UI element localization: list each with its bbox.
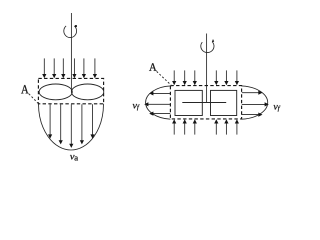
right fig top inflow arrow 1 bbox=[172, 70, 176, 85]
left fig top inflow arrow 3 bbox=[61, 58, 65, 78]
left fig top inflow arrow 5 bbox=[82, 58, 86, 78]
left fig top inflow arrow 6 bbox=[93, 58, 97, 78]
label A pointer line (right figure) bbox=[157, 71, 173, 86]
right fig horizontal center line bbox=[182, 102, 226, 104]
left fig right ellipse bbox=[71, 84, 103, 100]
right fig left outflow arrow top bbox=[149, 91, 170, 95]
left fig downward flow arrow 4 bbox=[80, 104, 84, 144]
right fig top inflow arrow 4 bbox=[214, 70, 218, 85]
left figure rotation direction arc bbox=[64, 26, 77, 38]
label A (left figure) bbox=[21, 85, 29, 93]
right fig left bulge arc bbox=[146, 86, 171, 119]
label v_a bbox=[70, 155, 78, 161]
left rotation arc arrowhead bbox=[75, 25, 77, 27]
left fig dashed region-A rectangle bbox=[38, 78, 103, 103]
right fig top inflow arrow 5 bbox=[224, 70, 228, 85]
label v_f left bbox=[133, 104, 140, 111]
right fig bottom inflow arrow 6 bbox=[235, 119, 239, 134]
right rotation arc arrowhead bbox=[212, 39, 214, 42]
right fig left outflow arrow middle bbox=[144, 102, 170, 106]
left fig top inflow arrow 4 bbox=[72, 58, 76, 78]
right fig top inflow arrow 6 bbox=[235, 70, 239, 85]
right fig bottom inflow arrow 2 bbox=[183, 119, 187, 134]
right figure rotation direction arc bbox=[201, 42, 214, 52]
right fig bottom inflow arrow 4 bbox=[214, 119, 218, 134]
right fig right outflow arrow middle bbox=[242, 102, 269, 106]
label A (right figure) bbox=[149, 63, 157, 71]
right fig top inflow arrow 2 bbox=[183, 70, 187, 85]
right fig right bulge arc bbox=[242, 86, 268, 119]
left fig downward flow arrow 2 bbox=[59, 104, 63, 144]
label A pointer line (left figure) bbox=[29, 94, 39, 104]
left figure rotation axis bbox=[70, 13, 72, 92]
label v_f right bbox=[274, 105, 281, 112]
right fig right outflow arrow bottom bbox=[242, 113, 263, 117]
left fig downward flow arrow 1 bbox=[48, 104, 52, 138]
right fig top inflow arrow 3 bbox=[193, 70, 197, 85]
right fig bottom inflow arrow 3 bbox=[193, 119, 197, 134]
right fig dashed region-A rectangle bbox=[170, 86, 241, 119]
right fig left inner rectangle bbox=[175, 90, 202, 115]
right figure rotation axis bbox=[206, 34, 208, 104]
left fig top inflow arrow 2 bbox=[52, 58, 56, 78]
left fig left ellipse bbox=[39, 84, 72, 100]
right fig left outflow arrow bottom bbox=[149, 112, 170, 116]
right fig right inner rectangle bbox=[211, 90, 237, 115]
left fig top inflow arrow 1 bbox=[42, 58, 46, 78]
right fig right outflow arrow top bbox=[242, 91, 263, 95]
left fig downward flow arrow 3 bbox=[69, 104, 73, 148]
left fig downward flow arrow 5 bbox=[90, 104, 94, 138]
left fig U-shaped body outline bbox=[39, 104, 104, 150]
right fig bottom inflow arrow 5 bbox=[224, 119, 228, 134]
right fig bottom inflow arrow 1 bbox=[172, 119, 176, 134]
